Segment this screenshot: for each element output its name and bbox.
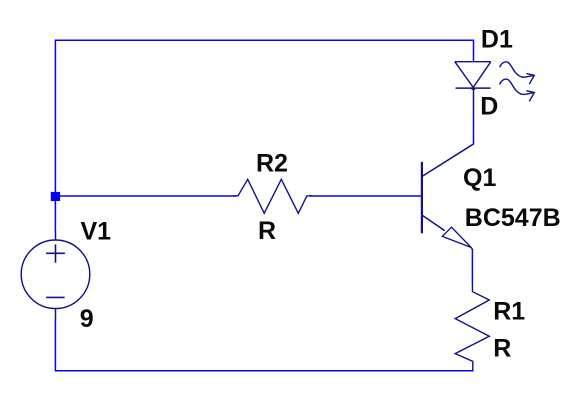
svg-text:R: R	[258, 217, 276, 245]
voltage source V1 minus sign	[46, 296, 65, 298]
transistor Q1 base bar	[421, 162, 423, 233]
transistor Q1 emitter lead	[422, 215, 445, 231]
voltage source V1 pin stubs	[55, 231, 57, 319]
svg-text:9: 9	[80, 305, 94, 333]
svg-text:R1: R1	[493, 298, 525, 326]
wire: Q1 emitter to R1 top	[471, 249, 473, 284]
wire: bottom rail from R1 to V1 minus	[55, 319, 472, 371]
LED D1 cathode bar	[456, 87, 491, 89]
node A junction	[51, 192, 60, 201]
LED D1 triangle	[455, 62, 491, 90]
resistor R1 zigzag	[455, 284, 489, 371]
wire: D1 cathode to Q1 collector	[473, 116, 475, 144]
svg-text:BC547B: BC547B	[465, 204, 561, 232]
svg-text:D1: D1	[481, 26, 513, 54]
svg-text:Q1: Q1	[463, 164, 496, 192]
transistor Q1 collector lead	[422, 144, 473, 177]
voltage source V1 plus sign	[46, 244, 65, 262]
wire: R2 right lead to Q1 base	[309, 195, 422, 197]
svg-text:D: D	[480, 93, 498, 121]
LED D1 pin stubs	[473, 54, 475, 117]
transistor Q1 emitter arrow	[442, 227, 471, 247]
LED D1 light arrow 2	[500, 79, 535, 101]
voltage source V1 circle	[21, 240, 90, 309]
svg-text:R2: R2	[256, 150, 288, 178]
wire: top rail from node A to D1 anode	[55, 40, 473, 231]
svg-text:R: R	[493, 334, 511, 362]
transistor Q1 emitter tip to wire	[471, 248, 472, 251]
wire: node A to R2 left lead	[55, 195, 236, 197]
LED D1 light arrow 1	[500, 62, 535, 84]
svg-text:V1: V1	[81, 217, 112, 245]
resistor R2 zigzag	[233, 179, 312, 213]
